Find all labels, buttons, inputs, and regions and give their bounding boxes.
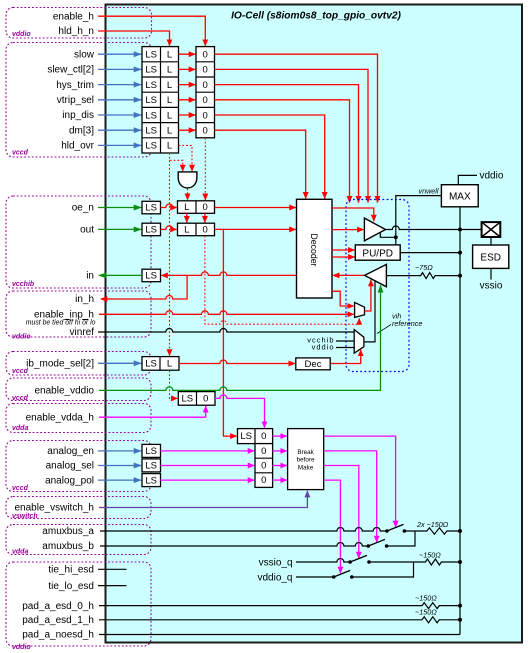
power group box vdda (amuxbus_a/b) <box>6 525 151 555</box>
L to 0 arrows <box>179 53 196 55</box>
mux1 (input enable mux) <box>355 302 365 317</box>
pad symbol <box>482 222 501 237</box>
svg-text:must be tied off hi or lo: must be tied off hi or lo <box>26 319 96 326</box>
svg-text:LS: LS <box>145 110 157 121</box>
wire enable_h to 0-column <box>98 16 205 46</box>
vih leader line <box>377 325 391 334</box>
vddio_q switch blade <box>334 570 351 577</box>
svg-text:LS: LS <box>145 126 157 137</box>
svg-text:inp_dis: inp_dis <box>62 110 94 121</box>
hld dashed 0-column to oe 0-box <box>204 138 206 200</box>
svg-text:amuxbus_b: amuxbus_b <box>42 541 94 552</box>
amuxbus_b switch blade <box>368 539 385 546</box>
in LS box <box>142 269 161 282</box>
vddio_q wire and switch <box>296 576 334 578</box>
blue input arrows slow..hld_ovr <box>98 53 141 55</box>
svg-text:Dec: Dec <box>305 359 322 370</box>
mux1 output to input buffer <box>365 280 371 311</box>
gate output dashed to oe L-box <box>187 189 189 201</box>
ESD block <box>473 245 509 268</box>
power group box vdda (enable_vdda_h) <box>6 404 151 433</box>
svg-text:2x ~150Ω: 2x ~150Ω <box>416 520 449 529</box>
amuxbus_b joins amuxbus_a before resistor <box>387 531 415 546</box>
svg-text:L: L <box>184 202 189 213</box>
svg-text:enable_vswitch_h: enable_vswitch_h <box>15 503 95 514</box>
svg-text:out: out <box>80 225 94 236</box>
svg-text:reference: reference <box>392 319 422 328</box>
hld dashed from L-column bottom <box>170 153 183 171</box>
magenta enable_vdda_h wire <box>99 406 206 417</box>
power group box vddio (tie/pad) <box>6 562 151 646</box>
wire input buffer to decoder (in) <box>333 274 365 276</box>
svg-text:~75Ω: ~75Ω <box>415 263 433 272</box>
svg-text:LS: LS <box>145 95 157 106</box>
violet enable_vswitch_h wire to BbM <box>99 491 307 508</box>
svg-text:0: 0 <box>203 394 208 405</box>
magenta latch output wire down to analog latch column <box>215 395 265 428</box>
pad_a_esd_1_h wire with 150 resistor <box>99 617 460 623</box>
power group box vccd (enable_vddio) <box>6 378 151 401</box>
PU/PD block <box>355 245 400 260</box>
svg-text:L: L <box>167 141 172 152</box>
svg-text:vddio: vddio <box>12 334 31 341</box>
amuxbus_a wire with hops and switch <box>100 528 387 532</box>
branch out wire down to enable_vdda latch <box>223 229 236 436</box>
svg-text:enable_vdda_h: enable_vdda_h <box>26 412 94 423</box>
svg-text:0: 0 <box>203 202 208 213</box>
latch block LS|L column <box>142 47 179 153</box>
svg-text:vssio: vssio <box>480 280 503 291</box>
svg-text:LS: LS <box>145 359 157 370</box>
svg-text:vddio_q: vddio_q <box>257 572 292 583</box>
svg-text:in: in <box>86 271 94 282</box>
Decoder block <box>297 199 333 298</box>
svg-text:LS: LS <box>145 50 157 61</box>
input buffer triangle <box>365 264 387 286</box>
wire slow config to driver block <box>215 54 378 202</box>
hld dashed to mux1 bottom <box>205 236 359 325</box>
BbM output to amuxbus_b switch <box>324 451 377 542</box>
svg-text:enable_h: enable_h <box>53 11 94 22</box>
svg-text:hld_h_n: hld_h_n <box>58 26 94 37</box>
hld dashed resume to enable_vddio latch <box>170 370 178 398</box>
svg-text:vccd: vccd <box>12 485 29 492</box>
svg-text:Decoder: Decoder <box>309 233 319 266</box>
wires decoder to PU/PD <box>332 249 355 251</box>
svg-text:enable_vddio: enable_vddio <box>35 386 95 397</box>
svg-text:L: L <box>167 80 172 91</box>
magenta arrows 0 cells to BbM <box>273 435 287 437</box>
svg-text:ESD: ESD <box>480 252 501 263</box>
wire vtrip_sel config to driver block <box>215 100 350 203</box>
svg-text:0: 0 <box>203 65 208 76</box>
svg-text:L: L <box>167 95 172 106</box>
svg-text:amuxbus_a: amuxbus_a <box>42 526 94 537</box>
vssio_q wire to 150 resistor and pad bus <box>369 559 460 565</box>
svg-text:LS: LS <box>181 394 193 405</box>
junction dot pad net <box>458 228 462 232</box>
BbM output to vssio_q switch <box>324 466 359 559</box>
svg-text:L: L <box>167 110 172 121</box>
wire enable_inp_h to mux1 <box>99 311 354 314</box>
wire out 0-box to decoder <box>215 228 296 230</box>
ib_mode blue arrow <box>98 362 141 364</box>
power group box vddio (enable_h, hld_h_n) <box>6 8 152 39</box>
green input arrow oe_n <box>98 207 141 209</box>
vssio_q wire with hop and switch <box>296 559 350 562</box>
svg-text:slew_ctl[2]: slew_ctl[2] <box>47 65 94 76</box>
enable_vdda LS|0 latch box <box>238 429 273 444</box>
pad bus vertical <box>459 230 461 635</box>
arrow into in LS box <box>161 274 187 276</box>
svg-text:0: 0 <box>261 431 266 442</box>
junction dot vnwell/feedback <box>394 235 398 239</box>
power group box vcchib (oe_n,out,in) <box>6 196 151 288</box>
svg-text:~150Ω: ~150Ω <box>415 608 437 617</box>
svg-text:LS: LS <box>145 475 157 486</box>
pad to ESD wire <box>490 237 492 245</box>
svg-text:vtrip_sel: vtrip_sel <box>57 95 94 106</box>
svg-text:L: L <box>167 50 172 61</box>
svg-text:analog_sel: analog_sel <box>46 461 94 472</box>
ib_mode_sel LS|L box <box>142 357 179 371</box>
svg-text:vddio: vddio <box>12 31 31 38</box>
tie_hi_esd stub <box>98 568 127 570</box>
power group box vccd (slow..hld_ovr) <box>6 43 152 158</box>
analog enable LS boxes <box>142 444 161 457</box>
svg-text:0: 0 <box>203 225 208 236</box>
svg-text:tie_hi_esd: tie_hi_esd <box>48 565 94 576</box>
svg-text:PU/PD: PU/PD <box>362 248 393 259</box>
amuxbus_a switch blade <box>387 524 404 531</box>
vssio_q switch blade <box>350 555 367 562</box>
svg-text:L: L <box>167 126 172 137</box>
wire in_h branch <box>101 275 187 299</box>
driver output wire to pad (hop over vnwell) <box>386 226 482 229</box>
svg-text:LS: LS <box>240 431 252 442</box>
MAX bottom to pad net <box>459 207 461 230</box>
amuxbus_b wire with hops and switch <box>100 543 368 547</box>
wire ib_mode to Dec box <box>179 360 295 364</box>
out L|0 box <box>178 223 215 236</box>
svg-text:0: 0 <box>261 446 266 457</box>
svg-text:vddio: vddio <box>480 171 504 182</box>
svg-text:L: L <box>167 65 172 76</box>
svg-text:tie_lo_esd: tie_lo_esd <box>48 581 94 592</box>
hld dashed main vertical to ib_mode latch <box>169 160 171 355</box>
green enable_vddio wire to input buffer <box>99 285 381 390</box>
wire oe LS to L (hop) <box>161 204 177 207</box>
out LS box <box>142 223 161 236</box>
mux2 output to input buffer <box>364 281 375 342</box>
svg-text:LS: LS <box>145 65 157 76</box>
wire vinref to mux2 <box>98 329 354 333</box>
svg-text:Make: Make <box>298 464 314 471</box>
svg-text:vdda: vdda <box>12 548 28 555</box>
svg-text:L: L <box>184 225 189 236</box>
svg-text:MAX: MAX <box>449 191 471 202</box>
svg-text:pad_a_esd_0_h: pad_a_esd_0_h <box>22 601 94 612</box>
wire decoder to mux1 <box>332 291 354 306</box>
MAX top stub to vddio <box>458 175 477 184</box>
oe_n L|0 box <box>178 201 215 214</box>
PU/PD output wire <box>400 252 460 254</box>
svg-text:ib_mode_sel[2]: ib_mode_sel[2] <box>26 359 94 370</box>
analog 0 latch column <box>255 444 273 488</box>
svg-text:vssio_q: vssio_q <box>259 557 293 568</box>
MAX block <box>441 185 478 207</box>
hold arrows oe row to out row <box>186 213 188 222</box>
power group box vccd (ib_mode_sel) <box>6 352 151 376</box>
svg-text:0: 0 <box>261 461 266 472</box>
magenta wires analog LS to 0 cells <box>161 450 255 452</box>
Break before Make block <box>288 429 324 490</box>
svg-text:analog_en: analog_en <box>47 446 94 457</box>
wire in from decoder left with hops <box>187 272 296 276</box>
BbM output to vddio_q switch <box>324 480 341 573</box>
svg-text:in_h: in_h <box>75 294 94 305</box>
wire Dec to mux2 bottom <box>331 350 361 364</box>
pad_a_esd_0_h wire with 150 resistor <box>99 603 460 609</box>
svg-text:0: 0 <box>203 126 208 137</box>
wire decoder to driver enable (top) <box>332 208 374 221</box>
svg-text:LS: LS <box>145 446 157 457</box>
vddio stub <box>336 347 354 349</box>
AND gate (hold combine) <box>178 172 197 188</box>
ESD to vssio stub <box>490 268 492 279</box>
svg-text:~150Ω: ~150Ω <box>419 551 441 560</box>
svg-text:LS: LS <box>145 141 157 152</box>
svg-text:0: 0 <box>203 50 208 61</box>
power group box vswitch (enable_vswitch_h) <box>6 497 151 519</box>
svg-text:slow: slow <box>74 49 95 60</box>
svg-text:before: before <box>297 457 315 464</box>
svg-text:vccd: vccd <box>12 150 29 157</box>
svg-text:LS: LS <box>145 271 157 282</box>
wire hys_trim config to driver block <box>215 85 359 203</box>
svg-text:vccd: vccd <box>12 395 29 402</box>
power group box vddio (in_h..vinref) <box>6 291 151 337</box>
svg-text:vddio: vddio <box>12 644 31 651</box>
feedback wire to driver underside <box>380 233 396 238</box>
wire slew_ctl config to driver block <box>215 69 369 202</box>
svg-text:L: L <box>167 359 172 370</box>
output driver triangle <box>364 218 385 241</box>
svg-text:vdda: vdda <box>12 425 28 432</box>
blue arrows analog_en/sel/pol <box>98 450 141 452</box>
svg-text:LS: LS <box>145 203 157 214</box>
svg-text:analog_pol: analog_pol <box>45 475 94 486</box>
vddio_q joins vssio_q before resistor <box>352 562 414 577</box>
BbM output to amuxbus_a switch <box>324 436 396 527</box>
green output arrow in <box>99 274 142 276</box>
blue dashed driver group box <box>346 200 409 372</box>
pad_a_noesd_h wire <box>99 634 460 636</box>
svg-text:vinref: vinref <box>70 327 95 338</box>
wire inp_dis to decoder top <box>215 115 325 199</box>
svg-text:0: 0 <box>203 110 208 121</box>
svg-text:0: 0 <box>203 80 208 91</box>
input buffer wire with 75 ohm resistor <box>386 273 460 279</box>
svg-text:oe_n: oe_n <box>72 203 94 214</box>
svg-text:LS: LS <box>145 461 157 472</box>
vnwell wire from MAX to PU/PD <box>396 196 442 245</box>
wire dm[3] to decoder top <box>215 130 306 198</box>
svg-text:vnwell: vnwell <box>419 186 439 195</box>
oe_n LS box <box>142 201 161 214</box>
enable_vddio LS|0 box <box>178 392 215 406</box>
hold block 0-column <box>196 47 215 138</box>
wire decoder to driver input <box>332 229 364 231</box>
svg-text:hld_ovr: hld_ovr <box>61 141 94 152</box>
IO-Cell main block <box>106 5 523 643</box>
svg-text:0: 0 <box>203 95 208 106</box>
svg-text:dm[3]: dm[3] <box>69 125 94 136</box>
power group box vccd (analog_*) <box>6 441 151 492</box>
svg-text:pad_a_noesd_h: pad_a_noesd_h <box>22 630 94 641</box>
svg-text:Break: Break <box>297 449 314 456</box>
wire hld_h_n to L-column <box>98 31 170 46</box>
svg-text:IO-Cell (s8iom0s8_top_gpio_ovt: IO-Cell (s8iom0s8_top_gpio_ovtv2) <box>231 11 401 22</box>
wire oe 0-box to decoder <box>215 207 296 209</box>
svg-text:vswitch: vswitch <box>12 513 38 520</box>
vcchib stub <box>336 340 354 342</box>
mux2 (vih reference mux) <box>354 330 364 354</box>
Dec box <box>296 358 330 370</box>
svg-text:hys_trim: hys_trim <box>56 80 94 91</box>
tie_lo_esd stub <box>98 585 127 587</box>
svg-text:~150Ω: ~150Ω <box>415 594 437 603</box>
svg-text:vcchib: vcchib <box>12 281 35 288</box>
hld_ovr dashed to gate <box>179 145 193 171</box>
amuxbus_a wire to 2x150 resistor and pad bus <box>404 528 460 534</box>
wire out LS to L (hop) <box>161 226 177 229</box>
svg-text:vddio: vddio <box>312 342 335 351</box>
svg-text:LS: LS <box>145 225 157 236</box>
svg-text:0: 0 <box>261 475 266 486</box>
svg-text:LS: LS <box>145 80 157 91</box>
svg-text:pad_a_esd_1_h: pad_a_esd_1_h <box>22 615 94 626</box>
green input arrow out <box>98 228 141 230</box>
